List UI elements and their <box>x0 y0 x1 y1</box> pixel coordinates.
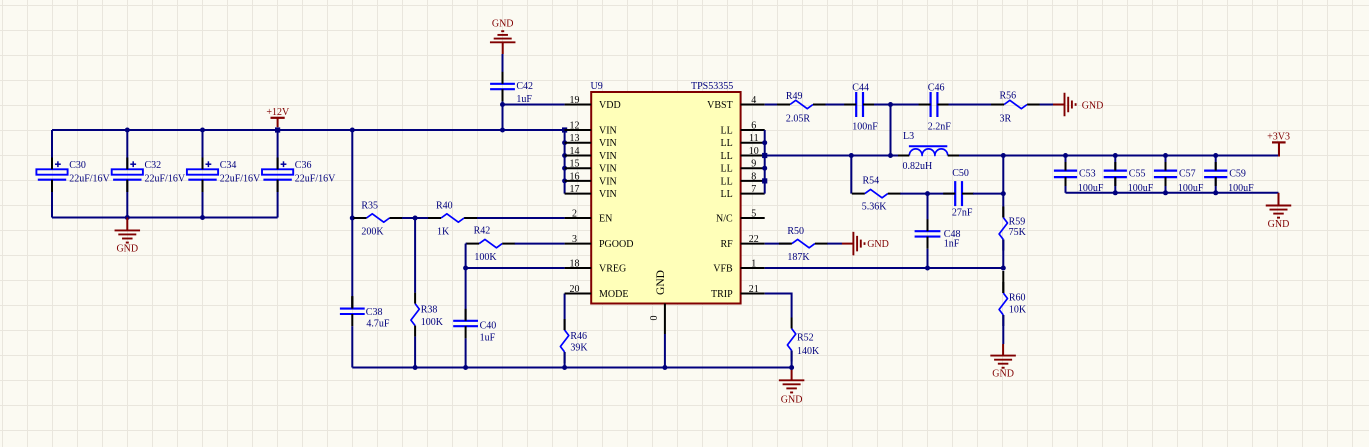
svg-text:GND: GND <box>867 239 889 250</box>
svg-text:EN: EN <box>599 213 612 224</box>
wire R54 to C50 <box>900 193 955 195</box>
svg-text:15: 15 <box>570 159 580 170</box>
pin 8 LL (right) <box>720 171 764 187</box>
resistor R54 5.36K <box>852 176 901 213</box>
svg-text:R38: R38 <box>421 305 438 316</box>
svg-text:VIN: VIN <box>599 189 617 200</box>
wire R38 branch <box>414 218 416 368</box>
svg-text:LL: LL <box>720 189 732 200</box>
wire C30 branch <box>51 130 53 218</box>
svg-text:3R: 3R <box>1000 114 1012 125</box>
svg-text:VBST: VBST <box>707 100 733 111</box>
pin 6 LL (right) <box>720 121 764 137</box>
wire GND bus <box>352 367 791 369</box>
svg-text:75K: 75K <box>1009 227 1027 238</box>
svg-text:187K: 187K <box>787 252 810 263</box>
svg-text:4.7uF: 4.7uF <box>366 319 390 330</box>
wire R60 to GND <box>1002 315 1004 344</box>
wire C40 to GND bus <box>465 338 467 367</box>
junction LL/C55 <box>1113 153 1118 158</box>
svg-text:GND: GND <box>1082 100 1104 111</box>
junction out rail/C55 <box>1113 190 1118 195</box>
svg-text:8: 8 <box>751 171 756 182</box>
svg-text:39K: 39K <box>570 343 588 354</box>
wire LL to R54 <box>850 156 852 194</box>
svg-text:27nF: 27nF <box>952 208 973 219</box>
wire C32 branch <box>126 130 128 218</box>
svg-text:R52: R52 <box>797 333 814 344</box>
capacitor C46 2.2nF <box>919 83 952 133</box>
capacitor C34 22uF/16V <box>187 158 261 193</box>
ground GND cap bank <box>115 218 141 255</box>
svg-text:LL: LL <box>720 164 732 175</box>
svg-text:VIN: VIN <box>599 125 617 136</box>
junction +12V/EN (R35 left) <box>350 216 355 221</box>
wire +12V top rail <box>52 129 565 131</box>
wire U9 GND pin to bus <box>664 334 666 368</box>
svg-text:100K: 100K <box>474 252 497 263</box>
resistor R60 10K <box>999 271 1027 326</box>
power +3V3 <box>1267 132 1290 157</box>
wire PGOOD net <box>466 244 565 268</box>
pin 14 VIN (left) <box>565 146 617 162</box>
svg-text:MODE: MODE <box>599 289 628 300</box>
svg-text:100uF: 100uF <box>1178 183 1204 194</box>
junction LL/C57 <box>1163 153 1168 158</box>
pin 20 MODE (left) <box>565 284 629 300</box>
svg-text:C36: C36 <box>295 160 312 171</box>
svg-text:10: 10 <box>749 146 759 157</box>
svg-text:1uF: 1uF <box>516 94 532 105</box>
svg-text:R40: R40 <box>436 201 453 212</box>
ground GND bus symbol <box>779 368 805 406</box>
svg-text:1uF: 1uF <box>480 333 496 344</box>
svg-text:PGOOD: PGOOD <box>599 239 633 250</box>
svg-text:C59: C59 <box>1229 169 1246 180</box>
pin 7 LL (right) <box>720 184 764 200</box>
capacitor C30 22uF/16V <box>36 158 110 193</box>
svg-text:2: 2 <box>572 209 577 220</box>
ground GND (VBST snubber) <box>1053 93 1103 117</box>
svg-text:VREG: VREG <box>599 263 626 274</box>
wire R49 to C44 <box>826 104 845 106</box>
svg-text:N/C: N/C <box>716 213 733 224</box>
wire R56 to GND <box>1040 104 1053 106</box>
capacitor C53 100uF <box>1054 162 1104 194</box>
junction VFB/C48 <box>925 266 930 271</box>
junction rail/C42 branch <box>500 128 505 133</box>
svg-text:9: 9 <box>751 159 756 170</box>
junction R59 vertical/C50 line <box>1001 191 1006 196</box>
svg-text:22uF/16V: 22uF/16V <box>145 173 186 184</box>
svg-text:100K: 100K <box>421 317 444 328</box>
junction LL/VBST tap <box>888 153 893 158</box>
svg-text:R60: R60 <box>1009 293 1026 304</box>
svg-text:20: 20 <box>570 284 580 295</box>
wire VBST net <box>765 104 789 106</box>
wire GND to C42 <box>502 54 504 72</box>
svg-text:GND: GND <box>116 244 138 255</box>
ground GND (RF) <box>842 232 889 256</box>
junction VREG/C40 <box>463 266 468 271</box>
wire C48 to VFB <box>927 249 929 268</box>
junction bus/R38 <box>413 365 418 370</box>
junction out rail/C59 <box>1213 190 1218 195</box>
ground GND (output) <box>1266 193 1292 230</box>
resistor R35 200K <box>354 201 403 238</box>
capacitor C57 100uF <box>1154 162 1204 194</box>
svg-text:5: 5 <box>751 209 756 220</box>
svg-text:6: 6 <box>751 121 756 132</box>
pin 9 LL (right) <box>720 159 764 175</box>
capacitor C44 100nF <box>844 83 878 133</box>
svg-text:22uF/16V: 22uF/16V <box>220 173 261 184</box>
wire C50 to R59 vertical <box>973 193 1003 195</box>
wire C48 branch <box>927 194 929 232</box>
svg-text:16: 16 <box>570 171 580 182</box>
capacitor C55 100uF <box>1104 162 1154 194</box>
wire TRIP net <box>765 293 792 318</box>
ground GND above C42 <box>490 19 516 54</box>
svg-text:11: 11 <box>749 133 759 144</box>
svg-text:C46: C46 <box>928 83 945 94</box>
svg-text:1nF: 1nF <box>944 239 960 250</box>
wire LL output line <box>765 155 1280 157</box>
ground GND (R60) <box>990 344 1016 379</box>
svg-text:R35: R35 <box>361 201 378 212</box>
svg-text:C44: C44 <box>852 83 869 94</box>
wire VBST tap down to LL <box>890 105 892 156</box>
junction LL bus pin8 <box>762 178 767 183</box>
resistor R40 1K <box>428 201 477 238</box>
junction LL bus pin10 <box>762 153 767 158</box>
capacitor C32 22uF/16V <box>112 158 186 193</box>
svg-text:2.2nF: 2.2nF <box>928 122 952 133</box>
wire R46 to GND bus <box>564 352 566 368</box>
wire cap bank bottom rail <box>52 217 278 219</box>
pin 1 VFB (right) <box>713 259 764 275</box>
svg-text:R46: R46 <box>570 331 587 342</box>
svg-text:0: 0 <box>649 316 660 321</box>
wire LL vertical bus <box>764 130 766 194</box>
pin 13 VIN (left) <box>565 133 617 149</box>
svg-text:L3: L3 <box>903 131 914 142</box>
junction bus/C40 <box>463 365 468 370</box>
pin 15 VIN (left) <box>565 159 617 175</box>
svg-text:21: 21 <box>749 284 759 295</box>
svg-text:18: 18 <box>570 259 580 270</box>
svg-text:TRIP: TRIP <box>711 289 733 300</box>
junction LL/C53 <box>1063 153 1068 158</box>
svg-text:GND: GND <box>992 368 1014 379</box>
resistor R46 39K <box>560 319 588 363</box>
svg-text:7: 7 <box>751 184 756 195</box>
svg-text:GND: GND <box>781 395 803 406</box>
wire C55 branch <box>1114 156 1116 193</box>
svg-text:GND: GND <box>1268 219 1290 230</box>
svg-text:10K: 10K <box>1009 305 1027 316</box>
svg-text:C34: C34 <box>220 160 237 171</box>
junction bus/U9 GND pin <box>662 365 667 370</box>
svg-text:4: 4 <box>751 95 756 106</box>
svg-text:200K: 200K <box>361 227 384 238</box>
wire C53 branch <box>1065 156 1067 193</box>
svg-text:R42: R42 <box>474 226 491 237</box>
svg-text:22uF/16V: 22uF/16V <box>69 173 110 184</box>
junction rail/R35 branch <box>350 128 355 133</box>
svg-text:C50: C50 <box>952 168 969 179</box>
svg-text:VIN: VIN <box>599 151 617 162</box>
svg-text:5.36K: 5.36K <box>862 202 888 213</box>
junction LL/R59 branch <box>1001 153 1006 158</box>
svg-text:C55: C55 <box>1129 169 1146 180</box>
resistor R50 187K <box>779 226 828 263</box>
op-amp/IC U9 TPS53355 body <box>591 81 741 304</box>
junction R54 line/C48 <box>925 191 930 196</box>
wire MODE net <box>564 294 566 331</box>
pin 22 RF (right) <box>720 234 764 250</box>
svg-text:3: 3 <box>572 234 577 245</box>
pin 2 EN (left) <box>565 209 613 225</box>
wire C46 to R56 <box>949 104 1003 106</box>
svg-text:2.05R: 2.05R <box>786 114 811 125</box>
junction LL bus pin9 <box>762 166 767 171</box>
wire R50 to GND <box>827 243 842 245</box>
svg-text:VIN: VIN <box>599 176 617 187</box>
junction rail/C36/+12V <box>275 127 280 132</box>
svg-text:C30: C30 <box>69 160 86 171</box>
capacitor C48 1nF <box>915 219 961 249</box>
resistor R59 75K <box>999 207 1027 251</box>
svg-text:VIN: VIN <box>599 138 617 149</box>
svg-text:+12V: +12V <box>266 107 290 118</box>
svg-text:R49: R49 <box>786 91 803 102</box>
svg-text:LL: LL <box>720 138 732 149</box>
svg-text:GND: GND <box>492 19 514 30</box>
svg-text:GND: GND <box>655 270 667 295</box>
pin 11 LL (right) <box>720 133 764 149</box>
wire VREG net <box>466 267 565 269</box>
svg-text:TPS53355: TPS53355 <box>691 81 733 92</box>
svg-text:12: 12 <box>570 121 580 132</box>
svg-text:19: 19 <box>570 95 580 106</box>
capacitor C42 1uF <box>490 72 533 105</box>
wire C59 branch <box>1215 156 1217 193</box>
wire R52 to bus <box>791 351 793 368</box>
junction rail/C34 <box>200 128 205 133</box>
capacitor C50 27nF <box>943 168 974 218</box>
svg-text:LL: LL <box>720 151 732 162</box>
junction LL bus pin11 <box>762 140 767 145</box>
svg-text:C42: C42 <box>516 81 533 92</box>
svg-text:R50: R50 <box>787 226 804 237</box>
capacitor C59 100uF <box>1204 162 1254 194</box>
svg-text:100uF: 100uF <box>1078 183 1104 194</box>
wire C44 to C46 <box>874 104 931 106</box>
wire R59 to VFB <box>1002 240 1004 269</box>
resistor R52 140K <box>787 318 820 362</box>
pin 3 PGOOD (left) <box>565 234 634 250</box>
wire C36 branch <box>277 130 279 218</box>
svg-text:14: 14 <box>570 146 580 157</box>
pin 21 TRIP (right) <box>711 284 765 300</box>
resistor R49 2.05R <box>777 91 826 125</box>
pin 10 LL (right) <box>720 146 764 162</box>
svg-text:100uF: 100uF <box>1228 183 1254 194</box>
wire EN net <box>402 217 565 219</box>
pin 12 VIN (left) <box>565 121 617 137</box>
wire VDD net <box>503 101 565 130</box>
svg-text:VDD: VDD <box>599 100 621 111</box>
capacitor C36 22uF/16V <box>262 158 336 193</box>
svg-text:1K: 1K <box>437 227 450 238</box>
junction VFB/R59/R60 <box>1001 266 1006 271</box>
power +12V <box>266 107 290 127</box>
capacitor C38 4.7uF <box>340 297 390 330</box>
inductor L3 0.82uH <box>898 131 959 172</box>
junction VIN bus pin14 <box>562 153 567 158</box>
junction VIN bus/rail pin12 <box>562 127 567 132</box>
svg-text:17: 17 <box>570 184 580 195</box>
wire VREG to C40 <box>465 268 467 321</box>
capacitor C40 1uF <box>453 309 496 344</box>
pin 18 VREG (left) <box>565 259 627 275</box>
svg-text:LL: LL <box>720 125 732 136</box>
wire output bottom rail <box>1066 192 1279 194</box>
junction LL/C59 <box>1213 153 1218 158</box>
svg-text:R56: R56 <box>1000 91 1017 102</box>
pin 19 VDD (left) <box>565 95 621 111</box>
svg-text:C53: C53 <box>1079 169 1096 180</box>
resistor R38 100K <box>411 293 444 337</box>
resistor R56 3R <box>991 91 1040 125</box>
junction bottom rail/C32 <box>125 215 130 220</box>
wire C57 branch <box>1165 156 1167 193</box>
pin 17 VIN (left) <box>565 184 617 200</box>
junction VDD/C42 <box>500 102 505 107</box>
svg-text:C57: C57 <box>1179 169 1196 180</box>
pin 4 VBST (right) <box>707 95 765 111</box>
svg-text:VFB: VFB <box>713 263 733 274</box>
svg-text:C40: C40 <box>480 320 497 331</box>
svg-text:RF: RF <box>720 239 733 250</box>
svg-text:+3V3: +3V3 <box>1267 132 1290 143</box>
junction bottom rail/C34 <box>200 215 205 220</box>
wire C34 branch <box>202 130 204 218</box>
junction out rail/C57 <box>1163 190 1168 195</box>
junction bus/R46 <box>562 365 567 370</box>
svg-text:C32: C32 <box>145 160 162 171</box>
junction EN/R38 <box>413 216 418 221</box>
svg-text:LL: LL <box>720 176 732 187</box>
svg-text:22uF/16V: 22uF/16V <box>295 173 336 184</box>
junction bus/R52/GND <box>789 365 794 370</box>
junction VBST/LL tap <box>888 102 893 107</box>
svg-text:22: 22 <box>749 234 759 245</box>
pin 5 N/C (right) <box>716 209 765 225</box>
wire LL to R59 <box>1002 156 1004 218</box>
resistor R42 100K <box>466 226 515 263</box>
junction rail/C32 <box>125 128 130 133</box>
junction VIN bus pin13 <box>562 140 567 145</box>
svg-text:100nF: 100nF <box>852 122 878 133</box>
wire +12V branch to C38/R35 <box>351 130 353 309</box>
junction VIN bus pin16 <box>562 178 567 183</box>
svg-text:0.82uH: 0.82uH <box>903 161 933 172</box>
pin 16 VIN (left) <box>565 171 617 187</box>
svg-text:U9: U9 <box>591 81 603 92</box>
svg-text:100uF: 100uF <box>1128 183 1154 194</box>
svg-text:140K: 140K <box>797 346 820 357</box>
svg-text:VIN: VIN <box>599 164 617 175</box>
wire VIN vertical bus <box>564 130 566 194</box>
junction LL/R54 branch <box>849 153 854 158</box>
svg-text:R54: R54 <box>863 176 880 187</box>
wire RF net <box>765 243 791 245</box>
pin 0 GND (bottom) <box>649 304 665 335</box>
junction VIN bus pin15 <box>562 166 567 171</box>
svg-text:1: 1 <box>751 259 756 270</box>
svg-text:C38: C38 <box>366 307 383 318</box>
svg-text:13: 13 <box>570 133 580 144</box>
wire VFB net <box>765 267 1004 269</box>
wire C38 to GND bus <box>351 326 353 367</box>
